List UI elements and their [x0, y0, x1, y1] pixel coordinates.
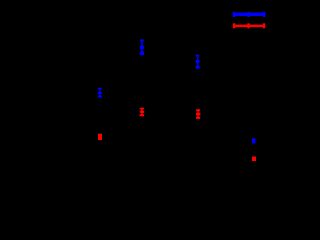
O atom group D (red vertical, center): [140, 108, 145, 117]
O atom H (red blob, lower right): [252, 157, 256, 162]
O2 molecule (red horizontal bond with O labels): [233, 23, 265, 28]
O atom F (red blob, lower left): [98, 134, 102, 140]
NH group B (blue vertical, left): [98, 88, 102, 98]
N2 molecule (blue horizontal bond with N labels): [233, 12, 266, 17]
O atom group E (red vertical, right): [196, 109, 200, 119]
N atom group C (blue vertical, right of center): [196, 55, 200, 69]
N atom group A (blue vertical, top center): [140, 39, 144, 55]
N atom G (blue blob, right side): [252, 138, 256, 143]
